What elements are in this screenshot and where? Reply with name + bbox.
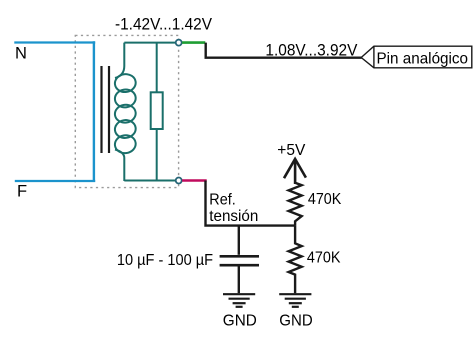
svg-text:+5V: +5V bbox=[277, 142, 306, 159]
svg-text:Ref.: Ref. bbox=[209, 191, 235, 208]
svg-text:GND: GND bbox=[223, 313, 257, 330]
svg-text:tensión: tensión bbox=[209, 208, 258, 225]
capacitor C1 lead top bbox=[238, 226, 240, 255]
transformer core bar right bbox=[108, 66, 110, 153]
capacitor C1 lead bottom bbox=[238, 266, 240, 293]
wire resistor top lead (teal) bbox=[156, 43, 158, 93]
resistor R1 470K (zigzag) bbox=[289, 183, 302, 226]
wire magenta reference segment bbox=[182, 179, 207, 182]
secondary coil L1 (teal loops) bbox=[114, 43, 137, 181]
wire primary conductor (cyan vertical) bbox=[93, 41, 95, 182]
svg-text:F: F bbox=[17, 183, 27, 201]
resistor R2 470K (zigzag) bbox=[289, 226, 302, 294]
ground GND1 (capacitor) bbox=[223, 294, 255, 307]
dashed module outline bbox=[75, 35, 178, 187]
wire reference (black, down and right to divider) bbox=[206, 181, 296, 226]
transformer core bar left bbox=[100, 66, 102, 153]
svg-text:1.08V...3.92V: 1.08V...3.92V bbox=[265, 40, 358, 59]
net flag Pin analógico bbox=[361, 46, 472, 68]
wire N (cyan, top primary lead) bbox=[14, 41, 95, 43]
node connector top (output +) bbox=[176, 40, 182, 46]
wire green output segment bbox=[182, 41, 205, 44]
wire F (cyan, bottom primary lead) bbox=[15, 180, 95, 182]
ground GND2 (divider) bbox=[279, 294, 311, 307]
svg-text:Pin analógico: Pin analógico bbox=[377, 50, 469, 67]
svg-text:N: N bbox=[15, 45, 27, 63]
capacitor C1 plates bbox=[220, 255, 259, 258]
burden resistor (teal rectangle) bbox=[151, 92, 163, 129]
wire analog pin (black) bbox=[206, 43, 362, 58]
svg-text:10 µF - 100 µF: 10 µF - 100 µF bbox=[117, 252, 213, 269]
+5V supply arrow bbox=[284, 159, 306, 184]
node connector bottom (output -) bbox=[176, 178, 182, 184]
svg-text:-1.42V...1.42V: -1.42V...1.42V bbox=[115, 15, 213, 34]
wire secondary top rail (teal) bbox=[124, 42, 175, 44]
svg-text:470K: 470K bbox=[307, 250, 341, 267]
wire resistor bottom lead (teal) bbox=[156, 129, 158, 181]
svg-text:470K: 470K bbox=[308, 191, 342, 208]
svg-text:GND: GND bbox=[279, 313, 312, 330]
wire secondary bottom rail (teal) bbox=[124, 180, 175, 182]
